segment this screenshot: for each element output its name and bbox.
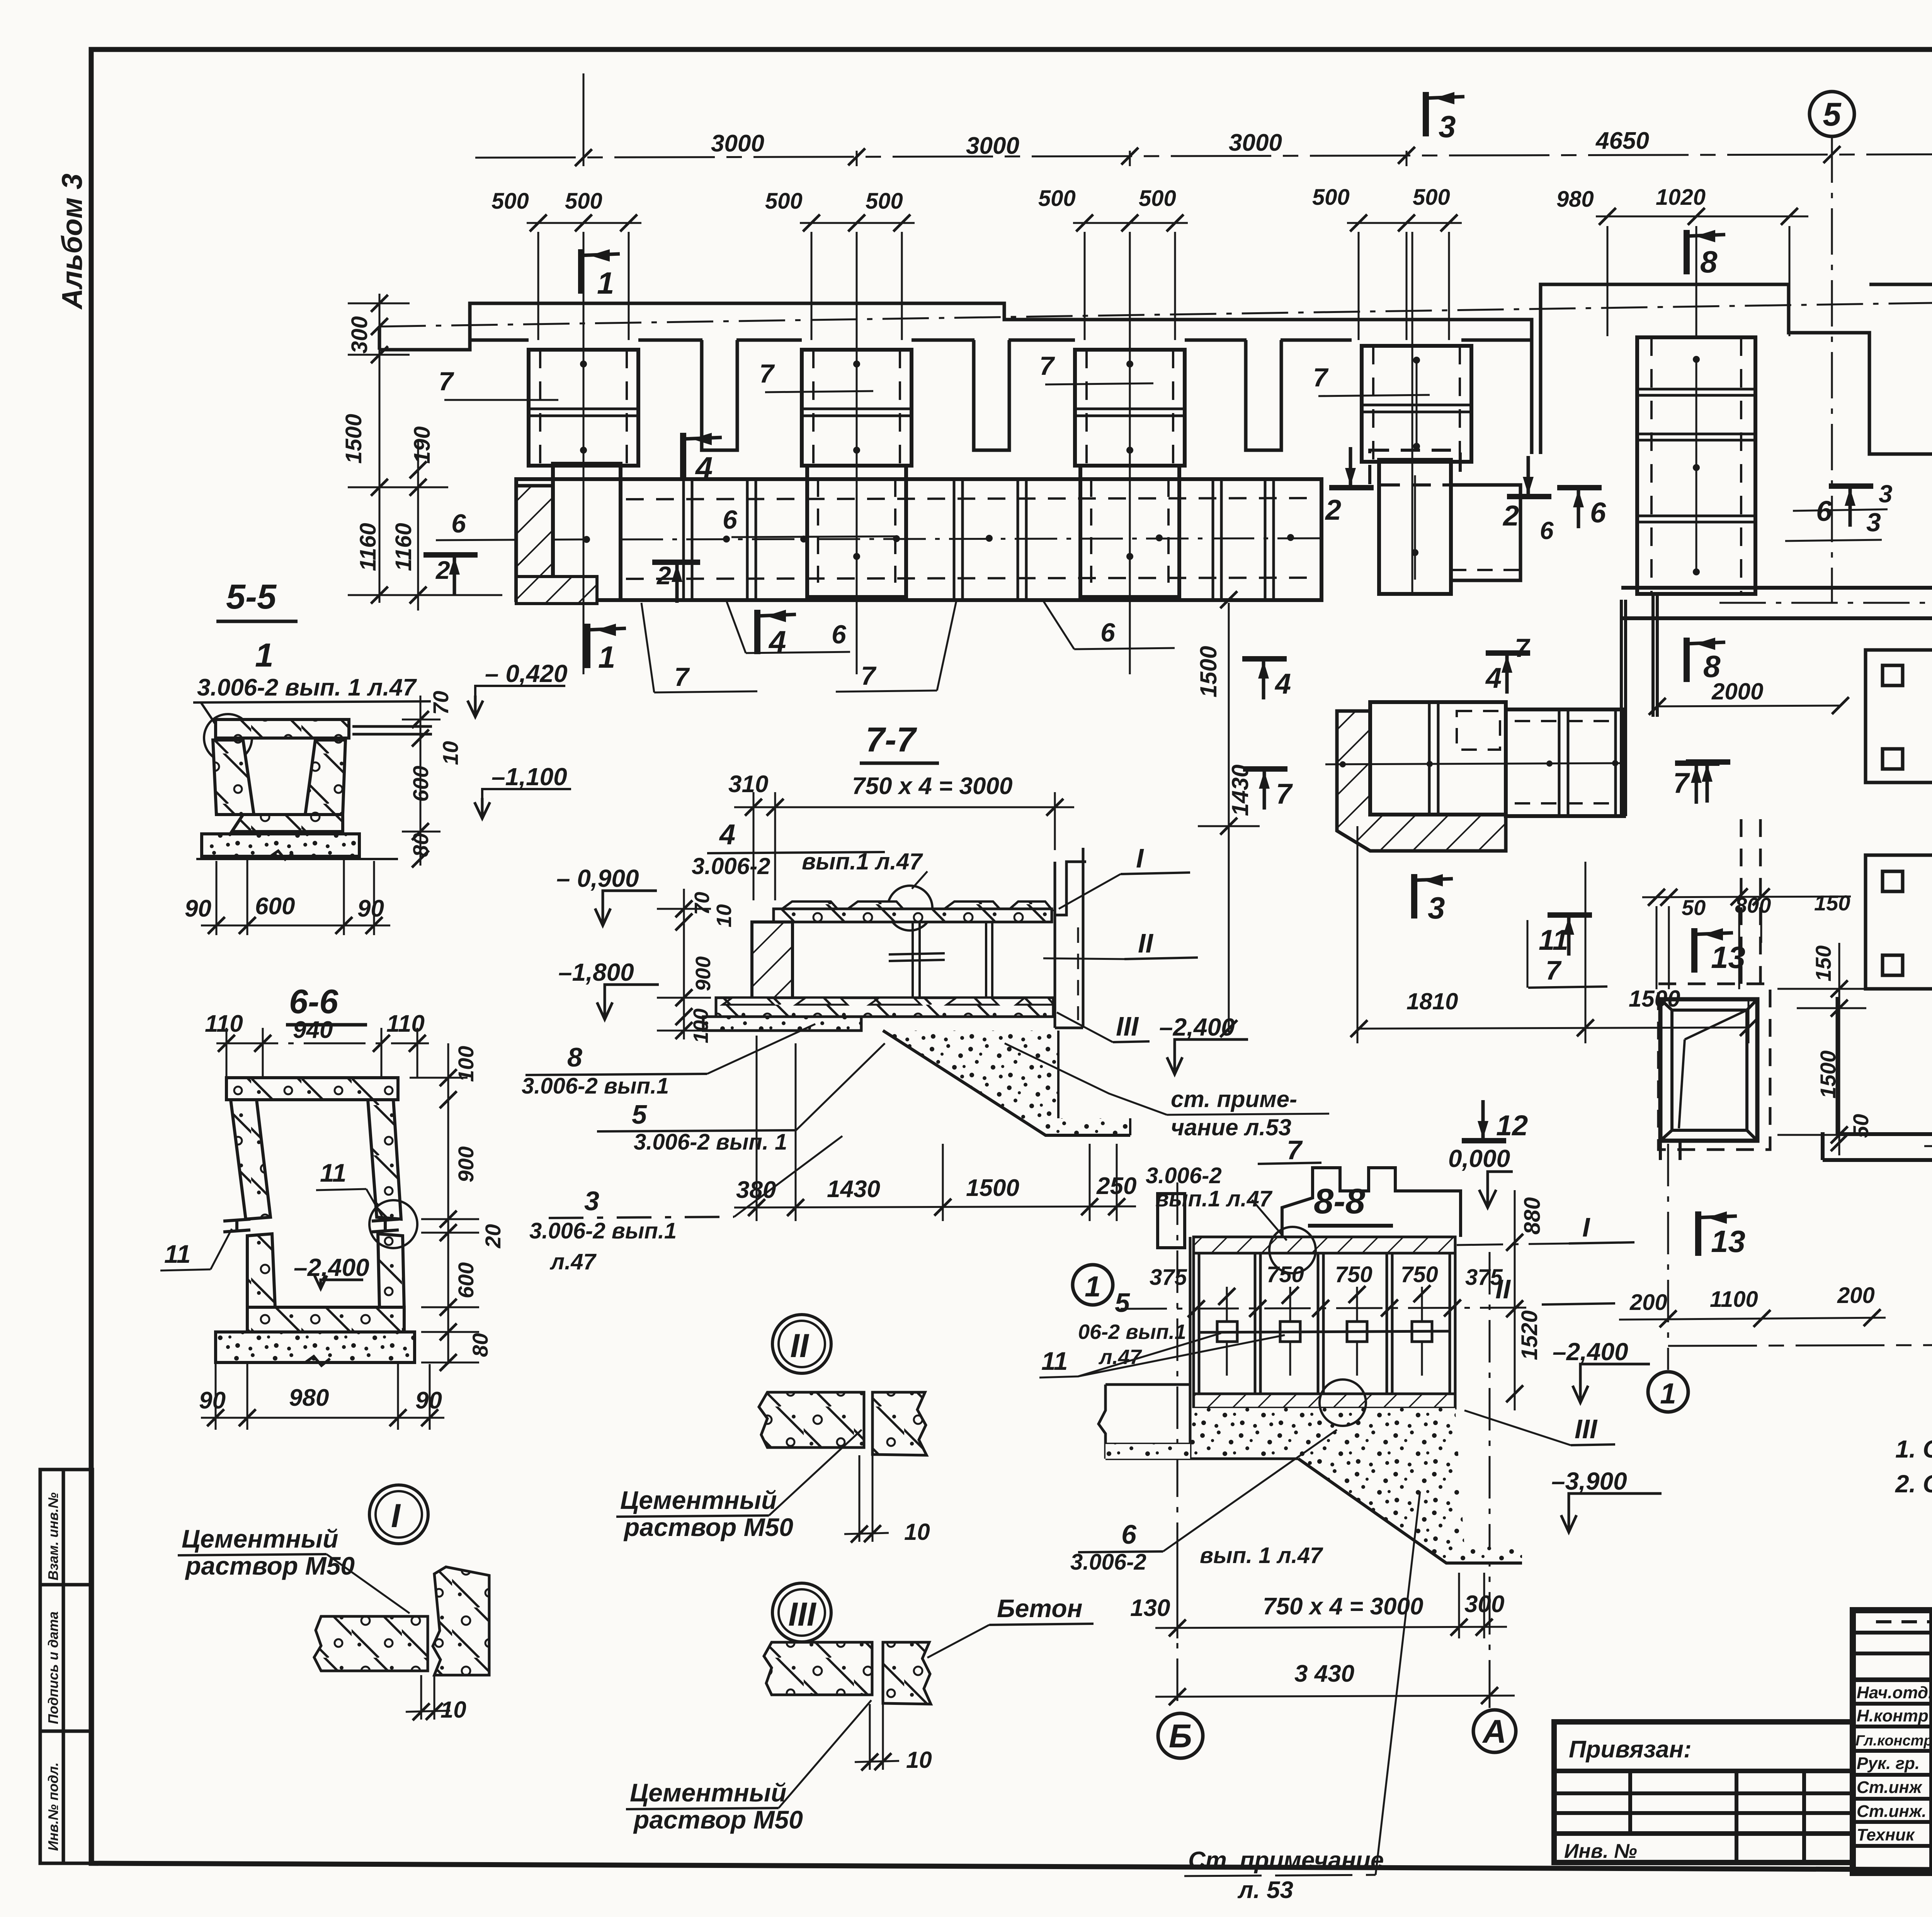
svg-text:1: 1 [1660,1377,1676,1410]
svg-text:5-5: 5-5 [226,578,277,616]
svg-text:А: А [1482,1713,1506,1750]
bottom dims [201,859,390,935]
title block [1853,1610,1932,1873]
node I [369,1485,428,1544]
bottom dims [201,1364,444,1430]
svg-text:2: 2 [1325,494,1341,526]
svg-text:3.006-2: 3.006-2 [692,853,770,879]
axis A dash-dot [379,294,1932,327]
axis of grid 1 up from circle [1667,1144,1669,1370]
500/500 dims at grids 1-4 [527,209,1932,340]
svg-text:300: 300 [1464,1591,1504,1618]
svg-text:Гл.констр.: Гл.констр. [1855,1733,1932,1749]
right structure [1055,848,1086,1028]
svg-text:750: 750 [1401,1262,1438,1287]
svg-text:7: 7 [1515,633,1531,663]
privyazan table [1554,1722,1853,1863]
svg-text:50: 50 [1849,1114,1873,1138]
svg-text:Ст. примечание: Ст. примечание [1188,1847,1384,1874]
pedestal groups (upper) [529,350,638,466]
svg-text:900: 900 [692,956,715,991]
svg-text:III: III [788,1596,817,1633]
footing pad [216,1332,415,1362]
svg-text:10: 10 [438,741,463,765]
svg-text:2. Спецификацию к схеме: 2. Спецификацию к схеме расположения [1895,1470,1932,1498]
svg-text:1020: 1020 [1656,185,1706,210]
svg-text:90: 90 [357,895,384,922]
svg-text:1430: 1430 [827,1176,880,1203]
svg-text:12: 12 [1496,1109,1528,1141]
svg-text:750: 750 [1335,1262,1372,1287]
svg-text:Ст.инж.: Ст.инж. [1857,1802,1927,1821]
svg-text:800: 800 [1735,893,1771,917]
soil mass [883,1031,1130,1135]
svg-text:750 x 4 = 3000: 750 x 4 = 3000 [1263,1593,1423,1620]
svg-text:7: 7 [759,359,775,388]
svg-text:130: 130 [1130,1595,1170,1621]
svg-text:7-7: 7-7 [866,721,917,759]
vertical posts [889,922,992,998]
svg-text:л.47: л.47 [549,1249,597,1274]
svg-text:10: 10 [906,1747,932,1773]
svg-text:6: 6 [1540,517,1554,544]
corner footing row (vent chamber) [1325,595,1657,988]
svg-text:13: 13 [1711,1224,1745,1259]
top slab [226,1078,398,1100]
svg-text:880: 880 [1520,1197,1545,1235]
dims near window [1642,896,1874,1155]
svg-text:I: I [391,1497,401,1534]
svg-text:500: 500 [565,189,602,214]
svg-text:I: I [1582,1212,1590,1242]
svg-text:90: 90 [185,895,211,922]
svg-text:500: 500 [1312,185,1350,210]
svg-text:150: 150 [1814,891,1850,915]
svg-text:150: 150 [1811,946,1835,981]
svg-text:1500: 1500 [966,1175,1019,1201]
svg-text:Н.контр: Н.контр [1857,1706,1929,1725]
notes text [1895,1435,1932,1563]
svg-text:3000: 3000 [966,133,1019,159]
svg-text:7: 7 [439,367,454,396]
hatched end block [516,486,553,600]
bottom hatched strip [1194,1394,1455,1408]
svg-text:–2,400: –2,400 [1159,1013,1235,1041]
svg-text:III: III [1116,1011,1139,1041]
svg-text:3: 3 [1428,891,1445,925]
top wall band [1621,586,1932,590]
svg-text:900: 900 [454,1146,478,1182]
upper wall outline (left portion) [379,284,1932,588]
svg-text:70: 70 [429,691,453,715]
svg-text:1160: 1160 [391,523,416,571]
U channel walls [213,740,254,815]
svg-text:6: 6 [1100,618,1116,647]
svg-text:5: 5 [1823,96,1842,133]
svg-text:ст. приме-: ст. приме- [1171,1086,1297,1112]
svg-text:80: 80 [468,1333,492,1357]
svg-text:200: 200 [1837,1283,1875,1308]
svg-text:8: 8 [1700,245,1718,279]
"7" leader labels for groups [439,351,1329,396]
grid circles [1073,92,1932,1758]
svg-text:Альбом 3: Альбом 3 [56,173,88,310]
room left wall verticals [1620,600,1623,816]
svg-text:1520: 1520 [1517,1310,1542,1360]
svg-text:500: 500 [1139,186,1176,211]
top slab with caps [781,902,1052,910]
left margin stamp boxes [40,1470,92,1863]
svg-text:70: 70 [690,892,714,915]
bottom dims 7-7 [734,1036,1136,1221]
7 label below row [1527,920,1529,988]
svg-text:13: 13 [1711,940,1745,975]
svg-text:90: 90 [199,1387,226,1414]
svg-text:8: 8 [1703,649,1721,684]
vertical posts mid dims [1227,1287,1422,1376]
svg-text:Цементный: Цементный [182,1524,338,1553]
svg-text:500: 500 [1413,185,1450,210]
svg-text:3: 3 [584,1186,599,1216]
svg-text:750: 750 [1267,1262,1304,1287]
node II [772,1315,831,1373]
svg-text:Нач.отд.: Нач.отд. [1857,1683,1932,1702]
svg-text:3.006-2: 3.006-2 [1146,1163,1222,1188]
svg-text:600: 600 [255,893,295,920]
svg-text:3000: 3000 [1229,129,1282,156]
svg-text:–1,800: –1,800 [558,958,634,986]
svg-text:980: 980 [1556,187,1594,212]
svg-text:4: 4 [1485,662,1502,694]
svg-text:1. Сечения 1-1÷4-4, 9-9÷14-14: 1. Сечения 1-1÷4-4, 9-9÷14-14 смотрите н… [1895,1435,1932,1463]
svg-text:–2,400: –2,400 [1553,1338,1628,1366]
svg-text:1100: 1100 [1710,1287,1758,1312]
svg-text:4: 4 [695,451,713,485]
svg-text:7: 7 [1276,778,1293,810]
album label (rotated, left margin) [56,173,88,310]
footing pad [202,834,359,856]
svg-text:–2,400: –2,400 [294,1254,369,1281]
svg-text:1160: 1160 [355,523,381,571]
grid-B small rect and dashed axis [1158,1194,1185,1248]
svg-text:3.006-2: 3.006-2 [1070,1550,1146,1575]
svg-text:500: 500 [765,189,803,214]
svg-text:80: 80 [408,833,433,857]
thin left slab [703,1017,861,1031]
svg-text:7: 7 [1287,1135,1303,1165]
svg-text:6: 6 [1590,497,1606,529]
right portion stepped outline [1541,284,1932,454]
window/door detail bottom-left of room [1658,819,1770,1160]
svg-text:940: 940 [293,1017,333,1043]
svg-text:10: 10 [713,904,736,927]
svg-text:5: 5 [1115,1288,1130,1318]
hatched wall left [752,922,793,1002]
svg-text:1: 1 [255,637,274,674]
svg-text:II: II [1495,1274,1511,1304]
grid verticals [583,136,1932,674]
svg-text:3.006-2 вып. 1: 3.006-2 вып. 1 [634,1129,787,1155]
top hatched strip [1194,1237,1455,1253]
svg-text:100: 100 [454,1046,478,1082]
svg-text:3 430: 3 430 [1294,1660,1354,1687]
svg-text:190: 190 [410,426,435,464]
svg-text:110: 110 [205,1010,243,1037]
svg-text:1: 1 [597,266,614,300]
wide footing right of neck tower [1451,485,1520,580]
svg-text:3.006-2 вып.1: 3.006-2 вып.1 [522,1073,669,1099]
lower block row [516,464,1321,604]
svg-text:11: 11 [1539,924,1568,956]
svg-text:Рук. гр.: Рук. гр. [1857,1754,1920,1773]
svg-text:3.006-2 вып.1: 3.006-2 вып.1 [529,1218,677,1243]
svg-text:Взам. инв.№: Взам. инв.№ [45,1492,61,1580]
svg-text:I: I [1136,843,1144,873]
7500 dim [1668,1275,1932,1363]
svg-text:3: 3 [1439,109,1456,144]
svg-text:200: 200 [1629,1290,1667,1315]
bottom slab [247,1307,404,1332]
left vertical dims [348,294,502,611]
svg-text:1810: 1810 [1406,988,1458,1014]
svg-text:чание л.53: чание л.53 [1171,1114,1291,1140]
svg-text:11: 11 [320,1158,347,1187]
svg-text:750 x 4 = 3000: 750 x 4 = 3000 [852,773,1012,799]
svg-text:Подпись и дата: Подпись и дата [45,1611,61,1724]
svg-text:3.006-2 вып. 1 л.47: 3.006-2 вып. 1 л.47 [197,674,417,701]
svg-text:Техник: Техник [1857,1825,1915,1844]
svg-text:380: 380 [736,1177,776,1203]
right rotated dims [1517,1197,1545,1360]
svg-text:Цементный: Цементный [620,1486,777,1514]
svg-text:– 0,900: – 0,900 [556,864,639,892]
svg-text:7: 7 [1313,363,1329,392]
svg-text:л. 53: л. 53 [1237,1877,1293,1903]
bottom dims [1155,1565,1515,1708]
neck tower below group 4 [1370,450,1460,594]
svg-text:20: 20 [481,1224,505,1249]
svg-text:2: 2 [1502,500,1519,532]
svg-text:III: III [1575,1414,1598,1444]
svg-text:7: 7 [1039,351,1055,381]
svg-text:Б: Б [1169,1718,1192,1755]
svg-text:6: 6 [1121,1519,1137,1550]
svg-text:10: 10 [440,1697,466,1723]
soil [1190,1408,1522,1563]
bottom wall [1837,1132,1932,1136]
svg-text:3000: 3000 [711,130,764,157]
pedestal plates with 4 holes [1866,650,1932,989]
svg-text:вып.1 л.47: вып.1 л.47 [802,849,923,874]
svg-text:500: 500 [1038,186,1076,211]
svg-text:50: 50 [1682,895,1706,920]
svg-text:600: 600 [408,766,433,802]
svg-text:II: II [1138,928,1153,958]
svg-text:2: 2 [656,561,671,590]
svg-text:11: 11 [1041,1347,1068,1375]
svg-text:5: 5 [632,1099,647,1129]
svg-text:1: 1 [598,640,616,674]
svg-text:Инв.№ подл.: Инв.№ подл. [45,1762,61,1851]
svg-text:0,000: 0,000 [1448,1145,1510,1172]
svg-text:вып.1 л.47: вып.1 л.47 [1155,1186,1273,1211]
svg-text:7: 7 [861,661,877,691]
right vertical dims [402,696,440,866]
svg-text:11: 11 [164,1240,191,1268]
svg-text:6-6: 6-6 [289,982,338,1021]
svg-text:110: 110 [386,1010,425,1037]
top dimension chain [475,73,1932,166]
svg-text:7: 7 [674,662,690,692]
svg-text:4: 4 [1274,668,1291,700]
svg-text:6: 6 [451,509,466,538]
svg-text:–3,900: –3,900 [1551,1467,1627,1495]
svg-text:250: 250 [1096,1173,1136,1199]
signature rows [1855,1683,1932,1844]
svg-text:2: 2 [435,556,450,584]
svg-text:4: 4 [719,818,735,850]
svg-text:Бетон: Бетон [997,1594,1082,1623]
svg-text:Ст.инж: Ст.инж [1857,1778,1923,1797]
svg-text:Привязан:: Привязан: [1569,1736,1692,1763]
svg-text:Цементный: Цементный [630,1778,786,1807]
tall tower at x~4390 [1637,337,1755,594]
svg-text:– 0,420: – 0,420 [485,660,568,687]
lower slab [716,998,1053,1017]
svg-text:3: 3 [1879,480,1893,508]
svg-text:7: 7 [1546,955,1562,985]
svg-text:90: 90 [415,1387,442,1414]
left wall stub below window [1821,1132,1825,1160]
svg-text:300: 300 [347,316,372,354]
group 4 slightly lower/shifted [1362,346,1471,462]
svg-text:Инв. №: Инв. № [1564,1840,1637,1863]
double lines right of slab [352,725,432,728]
top slab [216,720,349,738]
svg-text:–1,100: –1,100 [492,763,567,791]
teeth between pedestal groups [702,340,737,450]
dims around corner row [1198,600,1840,1043]
svg-text:1: 1 [1085,1270,1101,1303]
svg-text:7: 7 [1673,767,1690,799]
svg-text:06-2 вып.1: 06-2 вып.1 [1078,1320,1186,1344]
inside dims [1121,1308,1530,1309]
svg-text:8: 8 [567,1042,582,1072]
svg-text:3: 3 [1866,508,1881,537]
anchors row [1200,1322,1449,1342]
svg-text:1430: 1430 [1227,765,1253,816]
svg-text:500: 500 [866,189,903,214]
svg-text:375: 375 [1150,1265,1187,1290]
svg-text:6: 6 [832,620,847,649]
svg-text:10: 10 [904,1519,930,1545]
svg-text:600: 600 [454,1262,478,1298]
right vertical dims [410,1043,479,1364]
grid verticals [583,136,1932,674]
svg-text:100: 100 [689,1009,713,1043]
svg-text:II: II [790,1327,810,1364]
walls (tapered) [231,1100,270,1219]
svg-text:4650: 4650 [1595,128,1649,154]
bottom row marks [587,624,626,668]
node III [772,1583,831,1642]
top beam with notches [1282,1168,1461,1237]
marks near corner row [1242,659,1287,699]
svg-text:1500: 1500 [1816,1050,1840,1099]
I-beam joint symbols [223,1219,399,1232]
svg-text:вып. 1 л.47: вып. 1 л.47 [1200,1543,1323,1568]
box with partitions [1194,1253,1455,1394]
top dim [216,1028,429,1078]
top row marks [581,249,620,294]
svg-text:1500: 1500 [341,414,366,464]
svg-text:310: 310 [728,771,768,798]
svg-text:500: 500 [492,189,529,214]
svg-text:1500: 1500 [1196,646,1221,697]
svg-text:980: 980 [289,1385,329,1411]
left side structure [1099,1237,1298,1459]
svg-text:6: 6 [723,505,738,534]
